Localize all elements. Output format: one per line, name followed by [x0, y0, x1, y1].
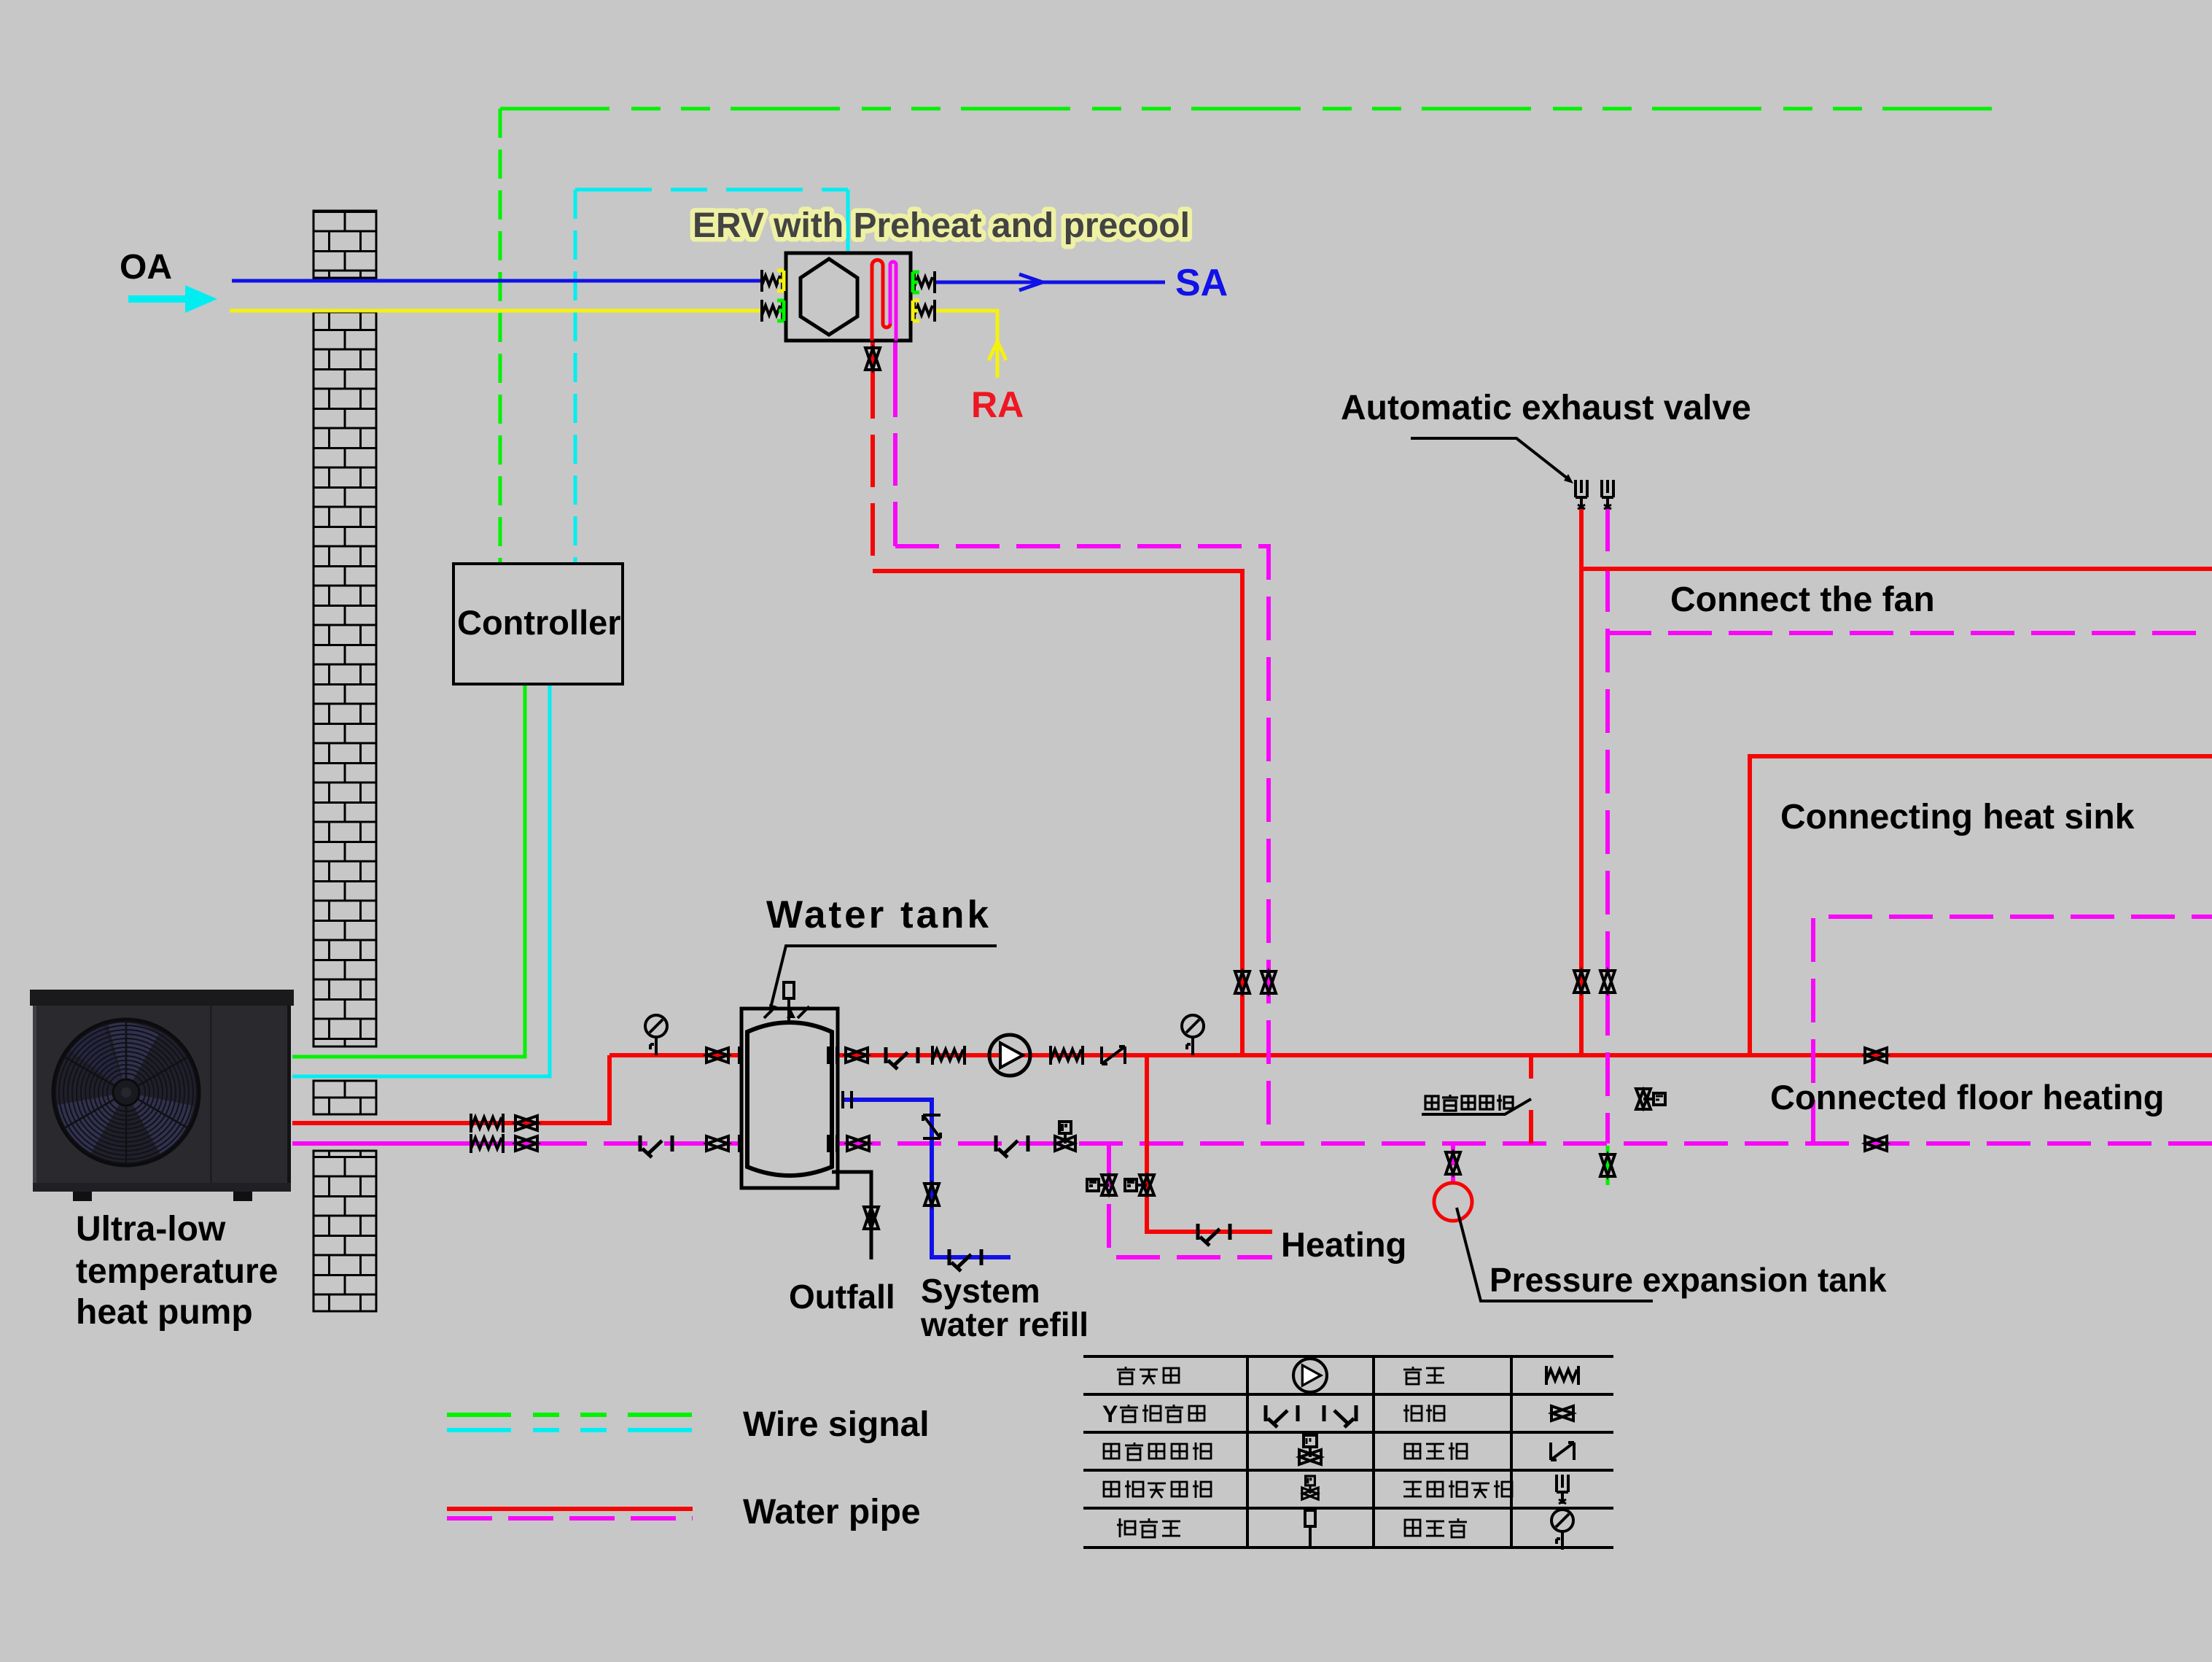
wall segment 3 — [314, 1081, 376, 1114]
valve outfall — [864, 1207, 879, 1229]
valve ERV magenta riser — [1261, 971, 1276, 993]
valve floor heating return — [1865, 1136, 1887, 1151]
solenoid floating — [1636, 1089, 1665, 1109]
svg-text:Pressure expansion tank: Pressure expansion tank — [1489, 1261, 1887, 1299]
expansion tank leader — [1457, 1208, 1653, 1301]
spring pump discharge — [1051, 1046, 1083, 1065]
valve blue riser — [924, 1184, 939, 1205]
label OA — [120, 248, 172, 287]
pipe magenta return to tank dashed — [543, 1141, 739, 1146]
svg-text:water refill: water refill — [920, 1305, 1089, 1343]
wall segment 4 — [314, 1151, 376, 1311]
duct blue OA line — [232, 279, 764, 283]
gauge before tank — [645, 1015, 667, 1055]
strainer magenta tank left — [640, 1135, 672, 1157]
label water pipe — [743, 1493, 921, 1531]
pipe red bypass stub lower — [1529, 1110, 1533, 1143]
svg-text:Water pipe: Water pipe — [743, 1493, 921, 1531]
table bypass valve symbol — [1299, 1435, 1321, 1464]
pipe black outfall — [832, 1172, 871, 1259]
label wire signal — [743, 1405, 930, 1444]
tank flange magenta left — [739, 1135, 748, 1152]
label connected floor heating — [1770, 1078, 2165, 1117]
svg-text:Heating: Heating — [1281, 1225, 1406, 1264]
pressure expansion tank circle — [1434, 1183, 1472, 1221]
controller box — [453, 564, 623, 684]
svg-text:heat pump: heat pump — [76, 1293, 253, 1332]
svg-text:Outfall: Outfall — [789, 1278, 895, 1316]
svg-text:Controller: Controller — [457, 603, 621, 642]
svg-text:Ultra-low: Ultra-low — [76, 1210, 226, 1249]
pipe red heat sink — [1750, 756, 2212, 1055]
svg-text:OA: OA — [120, 248, 172, 287]
label outfall — [789, 1278, 895, 1316]
label ultra-low temperature heat pump — [76, 1210, 278, 1332]
valve green stub — [1600, 1154, 1615, 1176]
valve floor heating supply — [1865, 1048, 1887, 1063]
pipe blue tank outlet — [843, 1100, 1010, 1257]
solenoid valve return — [1055, 1122, 1075, 1151]
pipe red main left of tank — [610, 1053, 739, 1057]
ERV red drop valve — [865, 348, 880, 370]
svg-text:temperature: temperature — [76, 1252, 278, 1291]
bypass label leader — [1422, 1099, 1531, 1114]
valve expansion stub — [1446, 1152, 1460, 1174]
tank flange blue — [843, 1091, 852, 1108]
label pressure expansion tank — [1489, 1261, 1887, 1299]
valve exhaust red riser — [1574, 971, 1589, 993]
tank flange magenta right — [828, 1135, 837, 1152]
ERV hexagon core — [801, 259, 857, 335]
ERV red coil — [872, 260, 890, 341]
strainer magenta return — [996, 1135, 1028, 1157]
wire cyan controller to heat pump — [292, 684, 550, 1076]
tank flange red left — [739, 1046, 748, 1064]
pipe magenta exhaust riser — [1605, 508, 1610, 1143]
svg-text:System: System — [921, 1272, 1040, 1310]
valve heat pump magenta — [515, 1136, 537, 1151]
strainer refill — [949, 1249, 981, 1271]
pipe magenta ERV to return — [895, 546, 1269, 1143]
water tank leader — [769, 946, 997, 1014]
valve heat pump red — [515, 1116, 537, 1130]
wire cyan drop to ERV — [846, 190, 850, 253]
ERV box — [786, 253, 911, 341]
label automatic exhaust valve — [1341, 389, 1751, 427]
tank top fitting — [764, 1006, 809, 1018]
OA cyan arrow — [128, 285, 217, 313]
table spring symbol — [1546, 1366, 1578, 1385]
valve red tank right — [846, 1048, 868, 1063]
pipe magenta fan line — [1608, 631, 2212, 635]
legend water pipe magenta — [447, 1516, 693, 1521]
duct yellow OA line — [230, 309, 764, 313]
svg-text:Wire signal: Wire signal — [743, 1405, 930, 1444]
spring pump suction — [932, 1046, 965, 1065]
label bypass chinese — [1425, 1095, 1513, 1111]
pipe red ERV coil drop — [871, 341, 875, 366]
label SA — [1175, 262, 1228, 304]
pipe red fan line — [1581, 567, 2212, 571]
wire green controller to heat pump — [292, 684, 525, 1057]
table AEV symbol — [1557, 1475, 1568, 1504]
svg-text:ERV with Preheat and precool: ERV with Preheat and precool — [693, 206, 1190, 245]
table gate valve symbol — [1551, 1406, 1573, 1421]
pump P1 — [989, 1035, 1030, 1076]
wall segment 2 — [314, 312, 376, 1046]
table check valve symbol — [1551, 1442, 1574, 1460]
valve exhaust magenta riser — [1600, 971, 1615, 993]
ERV left bottom connector — [762, 300, 784, 322]
valve magenta tank left — [706, 1136, 728, 1151]
label ERV title — [693, 206, 1190, 245]
solenoid valve heating supply riser — [1125, 1175, 1154, 1195]
valve red tank left — [706, 1048, 728, 1063]
spring heat pump magenta — [471, 1134, 503, 1153]
legend wire signal cyan — [447, 1428, 693, 1432]
table pump symbol — [1293, 1359, 1327, 1392]
wire cyan horizontal — [575, 188, 848, 192]
svg-text:Connecting heat sink: Connecting heat sink — [1780, 798, 2135, 836]
ERV left top connector — [762, 270, 784, 292]
check valve main — [1102, 1046, 1125, 1064]
tank thermometer — [784, 982, 794, 1020]
duct blue SA line — [934, 281, 1165, 284]
label RA — [971, 384, 1024, 425]
check valve blue riser — [923, 1115, 941, 1138]
pipe red exhaust riser — [1579, 508, 1584, 1055]
svg-text:Water tank: Water tank — [766, 893, 992, 936]
strainer red tank right — [886, 1047, 918, 1069]
automatic exhaust valve 1 — [1576, 480, 1587, 509]
automatic exhaust valve 2 — [1602, 480, 1613, 509]
strainer heating — [1198, 1224, 1230, 1246]
solenoid valve heating return riser — [1087, 1175, 1116, 1195]
pipe magenta return right of tank — [837, 1141, 2212, 1146]
spring heat pump red — [471, 1114, 503, 1133]
pipe magenta ERV coil drop — [893, 341, 897, 365]
label water tank — [766, 893, 992, 936]
ERV right top connector — [913, 271, 935, 293]
pipe magenta return left of tank — [292, 1141, 543, 1146]
table chinese labels — [1102, 1367, 1512, 1537]
wire green vertical to controller — [499, 109, 502, 564]
valve magenta tank right — [847, 1136, 869, 1151]
pipe red heat pump supply — [292, 1055, 610, 1123]
svg-text:SA: SA — [1175, 262, 1228, 304]
ERV right bottom connector — [913, 300, 935, 322]
table gauge symbol — [1551, 1510, 1573, 1550]
pipe magenta ERV dashed drop — [893, 365, 897, 546]
pipe red main right of tank — [837, 1053, 2212, 1057]
table thermometer symbol — [1305, 1510, 1315, 1548]
pipe magenta expansion tank stub — [1451, 1143, 1455, 1183]
wire green top horizontal — [500, 107, 1999, 111]
tank flange red right — [828, 1046, 837, 1064]
ERV magenta coil — [890, 262, 896, 341]
svg-text:Connected floor heating: Connected floor heating — [1770, 1078, 2165, 1117]
pipe red bypass stub upper — [1529, 1055, 1533, 1079]
svg-text:Connect the fan: Connect the fan — [1670, 580, 1935, 619]
wire cyan vertical to controller — [574, 190, 577, 564]
svg-text:Y: Y — [1102, 1401, 1118, 1427]
label connect the fan — [1670, 580, 1935, 619]
legend water pipe red — [447, 1507, 693, 1511]
wall segment 1 — [314, 211, 376, 278]
pipe red ERV to main — [873, 571, 1242, 1055]
valve ERV red riser — [1235, 971, 1250, 993]
pipe magenta heating branch — [1109, 1143, 1272, 1257]
pipe red ERV dashed drop — [871, 366, 875, 571]
RA arrow — [989, 341, 1006, 360]
svg-text:RA: RA — [971, 384, 1024, 425]
wire green stub at floor-heating valve — [1606, 1146, 1610, 1185]
svg-text:Automatic exhaust valve: Automatic exhaust valve — [1341, 389, 1751, 427]
pipe magenta heat sink — [1813, 917, 2212, 1143]
legend wire signal green — [447, 1413, 693, 1417]
label heating — [1281, 1225, 1406, 1264]
SA arrow — [1019, 274, 1043, 290]
label connecting heat sink — [1780, 798, 2135, 836]
AEV leader — [1411, 438, 1573, 484]
duct yellow RA line — [934, 311, 997, 378]
table solenoid symbol — [1302, 1476, 1318, 1499]
label system water refill — [920, 1272, 1089, 1343]
table ystrainer symbols — [1266, 1405, 1356, 1427]
pipe red heating branch — [1147, 1055, 1272, 1232]
gauge after pump — [1182, 1015, 1204, 1055]
